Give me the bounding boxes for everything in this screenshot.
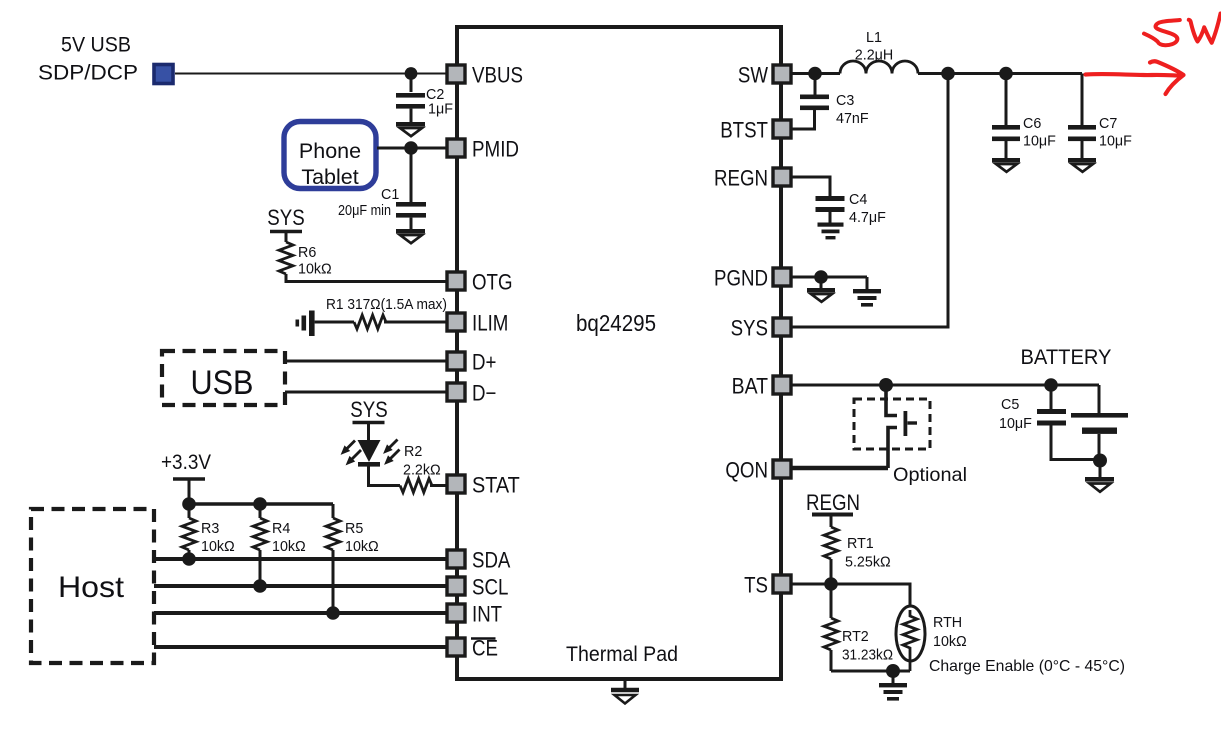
svg-text:2.2μH: 2.2μH: [855, 48, 893, 64]
wire PMID: [377, 147, 447, 150]
node SDA junction: [182, 552, 196, 566]
node TS junction: [824, 577, 838, 591]
ground below thermal pad: [611, 679, 639, 704]
thermistor RTH 10k: [896, 606, 967, 671]
svg-text:SYS: SYS: [731, 316, 768, 341]
USB input terminal blue square: [154, 65, 173, 84]
pin SW: [738, 63, 791, 88]
capacitor C3 47nF: [791, 79, 869, 129]
wire TS bottom: [831, 670, 910, 673]
svg-text:R4: R4: [272, 521, 290, 537]
svg-text:R2: R2: [404, 444, 422, 460]
ground below C1: [396, 229, 425, 243]
svg-text:10μF: 10μF: [1099, 134, 1132, 150]
wire pullup bus: [189, 502, 333, 506]
svg-text:4.7μF: 4.7μF: [849, 210, 886, 226]
wire INT: [154, 611, 447, 615]
svg-text:Phone: Phone: [299, 139, 361, 163]
node SW junction at C3: [808, 67, 822, 81]
pin SYS: [731, 316, 791, 341]
Host dashed box: [31, 509, 154, 663]
svg-text:R3: R3: [201, 521, 219, 537]
pin BAT: [732, 374, 791, 399]
battery BT1: [1071, 385, 1128, 460]
ground below battery: [1085, 466, 1114, 492]
USB host connector dashed box: [162, 351, 285, 405]
svg-text:USB: USB: [191, 364, 254, 402]
svg-text:C1: C1: [381, 187, 399, 203]
svg-text:STAT: STAT: [472, 473, 520, 498]
svg-text:R5: R5: [345, 521, 363, 537]
transistor Q1 (optional FET): [886, 390, 917, 468]
svg-text:SDP/DCP: SDP/DCP: [38, 62, 138, 85]
inductor L1 2.2uH: [840, 30, 918, 74]
resistor R3 10k: [182, 504, 235, 559]
svg-text:INT: INT: [472, 602, 502, 627]
svg-text:20μF min: 20μF min: [338, 203, 391, 219]
pin REGN: [714, 166, 791, 191]
svg-text:REGN: REGN: [714, 166, 768, 191]
resistor R4 10k: [253, 504, 306, 586]
svg-text:Optional: Optional: [893, 464, 967, 486]
Phone Tablet box: [284, 122, 376, 190]
capacitor C7 10uF: [1068, 74, 1132, 159]
IC U1 bq24295 body: [457, 27, 781, 679]
capacitor C1: [338, 154, 426, 229]
pin SDA: [447, 548, 511, 573]
svg-text:D−: D−: [472, 381, 496, 406]
ground at PGND (earth): [853, 277, 881, 307]
wire VBUS input: [175, 73, 447, 75]
ground below RT2/RTH (earth): [879, 671, 907, 701]
pin VBUS: [447, 63, 523, 88]
svg-text:10kΩ: 10kΩ: [201, 539, 235, 555]
node VBUS junction: [405, 67, 418, 80]
svg-text:Thermal Pad: Thermal Pad: [566, 643, 678, 666]
svg-text:R1 317Ω(1.5A max): R1 317Ω(1.5A max): [326, 297, 447, 313]
wire LED to R2: [369, 466, 401, 486]
net SYS (top) supply bar: [267, 205, 304, 242]
svg-text:L1: L1: [866, 30, 882, 46]
svg-text:RT2: RT2: [842, 629, 869, 645]
svg-text:BAT: BAT: [732, 374, 768, 399]
wire D-: [285, 391, 447, 394]
svg-text:BATTERY: BATTERY: [1021, 346, 1112, 369]
ground below C7: [1068, 158, 1096, 172]
svg-text:SDA: SDA: [472, 548, 511, 573]
svg-text:OTG: OTG: [472, 270, 513, 295]
ground below C4 (earth): [818, 223, 844, 240]
wire D+: [285, 360, 447, 363]
wire SDA: [154, 557, 447, 561]
node SW junction at SYS feed: [941, 67, 955, 81]
svg-text:ILIM: ILIM: [472, 311, 508, 336]
svg-text:Charge Enable (0°C - 45°C): Charge Enable (0°C - 45°C): [929, 658, 1125, 675]
resistor R5 10k: [326, 504, 379, 613]
node PGND junction: [814, 270, 828, 284]
node TS ground junction: [886, 664, 900, 678]
wire TS: [791, 584, 910, 610]
svg-text:D+: D+: [472, 350, 496, 375]
wire CE: [154, 645, 447, 649]
net REGN supply bar: [806, 490, 860, 527]
pin D+: [447, 350, 496, 375]
svg-text:10μF: 10μF: [1023, 134, 1056, 150]
svg-text:+3.3V: +3.3V: [161, 451, 211, 474]
pin ILIM: [447, 311, 508, 336]
handwritten red arrow: [1086, 61, 1184, 94]
pin QON: [725, 458, 791, 483]
pin CE (active low): [447, 636, 498, 661]
svg-text:10kΩ: 10kΩ: [272, 539, 306, 555]
LED arrows: [342, 440, 400, 465]
svg-text:SYS: SYS: [267, 205, 304, 230]
ground at R1 (signal ground bars): [296, 311, 315, 337]
svg-text:R6: R6: [298, 245, 316, 261]
svg-text:PGND: PGND: [714, 266, 768, 291]
svg-text:SW: SW: [738, 63, 768, 88]
pin PMID: [447, 137, 519, 162]
net +3.3V supply bar: [161, 451, 211, 504]
capacitor C4 4.7uF: [816, 192, 887, 226]
pin BTST: [720, 118, 791, 143]
resistor R1: [315, 315, 447, 329]
svg-text:C4: C4: [849, 192, 867, 208]
pin PGND: [714, 266, 791, 291]
wire R6 to OTG: [286, 274, 447, 282]
svg-text:bq24295: bq24295: [576, 310, 656, 336]
svg-text:31.23kΩ: 31.23kΩ: [842, 648, 893, 664]
svg-text:5V USB: 5V USB: [61, 34, 131, 57]
node BAT junction FET: [879, 378, 893, 392]
svg-text:10kΩ: 10kΩ: [298, 262, 332, 278]
pin OTG: [447, 270, 513, 295]
svg-text:10kΩ: 10kΩ: [933, 634, 967, 650]
node pullup junction R4: [253, 497, 267, 511]
wire SCL: [154, 584, 447, 588]
capacitor C6 10uF: [992, 79, 1056, 158]
wire REGN to C4: [791, 177, 830, 196]
Optional FET dashed box: [854, 399, 930, 449]
wire SW output: [791, 72, 1082, 75]
svg-text:C3: C3: [836, 93, 854, 109]
svg-text:C5: C5: [1001, 397, 1019, 413]
svg-text:RT1: RT1: [847, 536, 874, 552]
resistor RT1 5.25k: [824, 527, 891, 584]
svg-text:Tablet: Tablet: [301, 165, 358, 189]
node SCL junction: [253, 579, 267, 593]
net SYS (LED) supply bar: [350, 397, 387, 440]
wire BAT to battery: [791, 384, 1099, 387]
LED D1: [358, 440, 381, 467]
svg-text:PMID: PMID: [472, 137, 519, 162]
ground below PGND junction: [807, 283, 835, 302]
resistor R2 2.2k: [400, 444, 447, 493]
pin STAT: [447, 473, 520, 498]
wire PGND: [791, 276, 867, 279]
pin TS: [744, 573, 791, 598]
node BAT junction C5: [1044, 378, 1058, 392]
svg-text:C7: C7: [1099, 116, 1117, 132]
capacitor C2: [396, 79, 453, 122]
svg-text:VBUS: VBUS: [472, 63, 523, 88]
handwritten red SW annotation: [1144, 14, 1221, 46]
svg-text:C6: C6: [1023, 116, 1041, 132]
pin SCL: [447, 575, 508, 600]
node PMID junction: [404, 141, 418, 155]
resistor R6 10k: [279, 242, 332, 278]
svg-text:10kΩ: 10kΩ: [345, 539, 379, 555]
node pullup junction R3: [182, 497, 196, 511]
wire SW to SYS pin: [791, 74, 948, 328]
wire QON: [791, 466, 888, 470]
ground below C6: [992, 158, 1020, 172]
svg-text:47nF: 47nF: [836, 111, 869, 127]
capacitor C5 10uF: [999, 391, 1099, 460]
node SW junction at C6: [999, 67, 1013, 81]
svg-text:TS: TS: [744, 573, 768, 598]
label 5V USB / SDP/DCP: [38, 34, 138, 85]
resistor RT2 31.23k: [824, 584, 893, 671]
svg-text:QON: QON: [725, 458, 768, 483]
svg-text:5.25kΩ: 5.25kΩ: [845, 555, 891, 571]
svg-text:10μF: 10μF: [999, 416, 1032, 432]
svg-text:RTH: RTH: [933, 615, 962, 631]
svg-text:Host: Host: [58, 571, 125, 604]
svg-text:BTST: BTST: [720, 118, 768, 143]
svg-text:SYS: SYS: [350, 397, 387, 422]
pin D-: [447, 381, 496, 406]
svg-text:1μF: 1μF: [428, 102, 453, 118]
svg-text:2.2kΩ: 2.2kΩ: [403, 463, 441, 479]
node battery ground junction: [1093, 454, 1107, 468]
svg-text:REGN: REGN: [806, 490, 860, 515]
ground below C2: [396, 122, 425, 136]
svg-text:SCL: SCL: [472, 575, 508, 600]
node INT junction: [326, 606, 340, 620]
pin INT: [447, 602, 502, 627]
